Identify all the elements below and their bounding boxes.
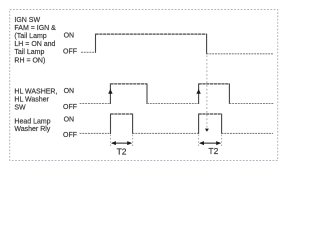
wire wf1 rising edge (95, 34, 97, 53)
svg-text:HL Washer: HL Washer (14, 96, 49, 103)
wire wf3 OFF segment 1 (80, 132, 111, 134)
dimension arrow T2 left (111, 141, 132, 145)
wire wf1 OFF right segment (207, 53, 274, 55)
wire wf2 OFF segment 1 (80, 103, 111, 105)
frame dashed border (10, 10, 278, 161)
wire wf3 rising edge 1 (110, 114, 112, 134)
arrow up on wf2 rise 1 (108, 89, 112, 94)
label block IGN SW (14, 17, 56, 65)
arrow down at guide end (205, 129, 209, 132)
wire wf2 falling edge 1 (146, 84, 148, 105)
svg-text:Washer Rly: Washer Rly (14, 126, 50, 133)
svg-text:IGN SW: IGN SW (14, 17, 40, 24)
svg-text:HL WASHER,: HL WASHER, (14, 88, 57, 95)
extension line below wf3 fall 2 (221, 135, 223, 147)
wire wf3 falling edge 1 (132, 114, 134, 134)
wire wf1 falling edge (206, 34, 208, 55)
svg-text:OFF: OFF (63, 104, 77, 111)
svg-text:ON: ON (64, 32, 75, 39)
svg-text:OFF: OFF (63, 48, 77, 55)
wire wf3 OFF segment 3 (222, 132, 273, 134)
svg-text:RH = ON): RH = ON) (14, 57, 45, 64)
svg-text:Head Lamp: Head Lamp (14, 118, 50, 125)
svg-text:LH = ON and: LH = ON and (14, 41, 55, 48)
svg-text:ON: ON (64, 116, 75, 123)
wire wf3 falling edge 2 (221, 114, 223, 134)
wire wf2 ON segment 1 (110, 83, 147, 85)
svg-text:Tail Lamp: Tail Lamp (14, 49, 44, 56)
extension line below wf3 rise 1 (110, 135, 112, 147)
svg-text:T2: T2 (117, 147, 127, 157)
wire wf3 ON segment 1 (111, 113, 133, 115)
wire wf2 OFF segment 3 (229, 103, 273, 105)
wire wf2 OFF segment 2 (147, 103, 199, 105)
svg-text:SW: SW (14, 104, 26, 111)
svg-text:T2: T2 (208, 146, 218, 156)
svg-text:OFF: OFF (63, 132, 77, 139)
extension line below wf3 fall 1 (132, 135, 134, 147)
wire wf3 rising edge 2 (198, 114, 200, 134)
arrow up on wf2 rise 2 (196, 89, 200, 94)
guide dotted vertical from wf1 fall (206, 56, 208, 130)
wire wf2 ON segment 2 (199, 83, 230, 85)
wire wf3 OFF segment 2 (133, 132, 199, 134)
svg-text:FAM = IGN &: FAM = IGN & (14, 25, 56, 32)
extension line below wf3 rise 2 (198, 135, 200, 147)
wire wf2 rising edge 2 (198, 84, 200, 105)
wire wf1 ON segment (96, 33, 207, 35)
label HL WASHER group (14, 88, 57, 111)
dimension arrow T2 right (199, 141, 221, 145)
svg-text:(Tail Lamp: (Tail Lamp (14, 33, 46, 40)
svg-text:ON: ON (64, 88, 75, 95)
wire wf1 OFF left segment (81, 51, 96, 53)
wire wf2 falling edge 2 (228, 84, 230, 105)
label Head Lamp group (14, 118, 50, 133)
wire wf2 rising edge 1 (109, 84, 111, 105)
wire wf3 ON segment 2 (199, 113, 222, 115)
